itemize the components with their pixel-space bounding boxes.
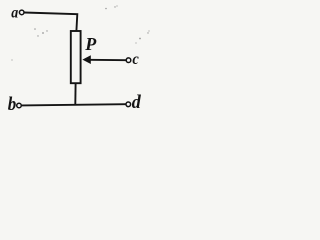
svg-text:d: d: [132, 91, 142, 113]
wiper arrow head: [82, 55, 90, 64]
wiper arrow shaft: [90, 59, 127, 61]
wire potentiometer bottom to bottom rail: [74, 84, 76, 105]
svg-text:P: P: [84, 34, 97, 54]
potentiometer P body: [71, 31, 81, 83]
terminal a (open circle): [19, 10, 24, 15]
svg-text:c: c: [132, 50, 139, 68]
svg-text:b: b: [8, 93, 16, 114]
terminal d (open circle): [126, 102, 131, 107]
wire a to potentiometer top: [24, 13, 77, 32]
bottom wire b to d: [22, 104, 126, 105]
terminal c (open circle): [126, 58, 131, 63]
svg-text:a: a: [11, 5, 18, 22]
terminal b (open circle): [17, 103, 22, 108]
